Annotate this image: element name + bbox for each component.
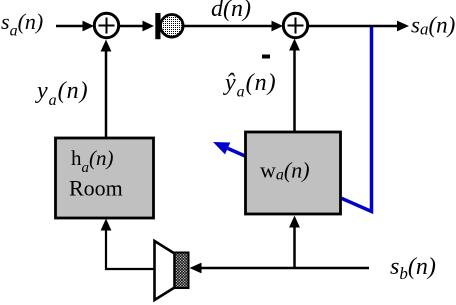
wire sb(n) to loudspeaker <box>202 267 370 270</box>
svg-text:d(n): d(n) <box>211 0 251 22</box>
wire microphone to adder 2 <box>184 25 272 28</box>
adder U2 (summing junction +) <box>283 13 307 37</box>
microphone <box>155 13 160 39</box>
wire adder 1 to microphone <box>120 25 143 28</box>
wire ha(n) to adder 1 <box>105 50 108 138</box>
svg-text:sa(n): sa(n) <box>1 9 43 40</box>
wire Wa(n) to adder 2 <box>293 49 296 132</box>
svg-text:sb(n): sb(n) <box>390 254 436 283</box>
wire adder 2 to output <box>308 25 397 28</box>
blue feedback wire to adaptive filter <box>228 27 372 212</box>
adder U1 (summing junction +) <box>94 13 118 37</box>
blue adaptation arrowhead <box>213 142 230 154</box>
wire input to adder 1 <box>56 25 84 28</box>
wire speaker to ha(n) <box>106 230 155 269</box>
svg-text:Room: Room <box>69 176 123 201</box>
loudspeaker <box>155 241 175 300</box>
svg-text:ŷa(n): ŷa(n) <box>223 70 277 101</box>
svg-text:ya(n): ya(n) <box>35 78 89 109</box>
filter block Wa(n) <box>246 132 341 214</box>
room block ha(n) <box>56 138 154 218</box>
minus sign at adder 2 <box>262 55 270 59</box>
wire branch to Wa(n) <box>293 227 296 268</box>
svg-text:sa(n): sa(n) <box>411 13 455 39</box>
svg-text:wa(n): wa(n) <box>260 158 310 184</box>
